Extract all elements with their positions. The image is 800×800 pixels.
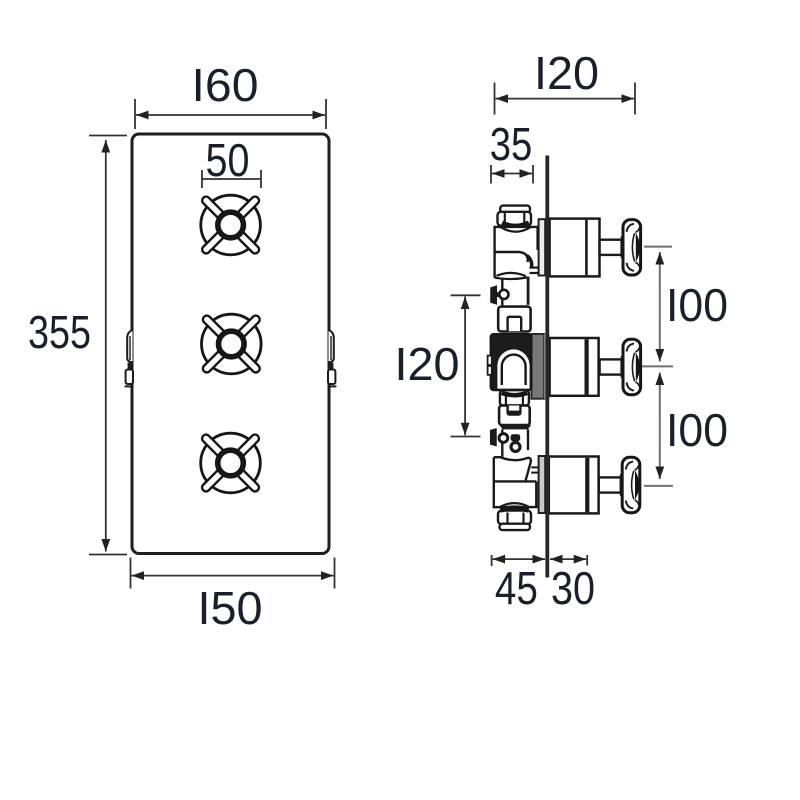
svg-text:I00: I00	[666, 279, 728, 331]
middle valve cartridge	[488, 334, 532, 390]
dims 45 / 30	[492, 555, 595, 614]
right mounting tab lower block	[328, 363, 336, 387]
bottom valve hex nut	[498, 508, 531, 530]
middle valve upper block	[498, 307, 530, 332]
wall plate	[545, 156, 549, 578]
front plate	[132, 134, 329, 554]
dim 50	[202, 134, 261, 188]
svg-text:50: 50	[206, 134, 250, 186]
middle valve flange gray	[531, 334, 549, 399]
top valve hex nut	[498, 206, 532, 227]
bottom valve side knob and screws	[491, 429, 521, 451]
svg-text:35: 35	[490, 118, 533, 170]
handle H2 front	[201, 314, 261, 374]
dim 120 side-left	[395, 295, 481, 436]
svg-text:I50: I50	[198, 582, 263, 634]
top cylinder	[550, 219, 600, 277]
top valve body	[495, 227, 539, 279]
svg-text:355: 355	[28, 306, 91, 358]
dim 150	[131, 558, 335, 635]
svg-text:30: 30	[551, 562, 595, 614]
left mounting tab upper blade	[127, 330, 132, 362]
svg-text:45: 45	[495, 562, 538, 614]
right mounting tab upper blade	[329, 330, 334, 362]
svg-text:I20: I20	[395, 338, 460, 390]
left mounting tab lower block	[125, 363, 133, 387]
dim 355	[28, 136, 127, 555]
bottom valve body	[494, 457, 538, 507]
middle valve hex	[500, 390, 529, 405]
middle valve lower block	[499, 406, 531, 430]
handle H3 front	[201, 433, 261, 493]
dim 35	[490, 118, 533, 184]
dims 100 right	[642, 247, 728, 486]
top valve lower connector	[502, 277, 528, 306]
bottom valve connector	[502, 429, 528, 456]
svg-text:I00: I00	[666, 404, 728, 456]
middle stem and handle side	[600, 339, 641, 394]
top stem and handle side	[600, 220, 641, 275]
bottom stem and handle side	[599, 457, 640, 512]
dim 160	[135, 59, 326, 129]
dim 120 top	[495, 47, 636, 115]
bottom valve flange	[539, 456, 546, 513]
svg-text:I60: I60	[192, 59, 259, 111]
top valve side knob and screw	[491, 286, 509, 303]
middle cylinder	[550, 338, 599, 396]
top valve flange	[539, 219, 546, 275]
bottom cylinder	[549, 457, 599, 514]
svg-text:I20: I20	[534, 47, 599, 99]
handle H1 front	[201, 195, 261, 255]
